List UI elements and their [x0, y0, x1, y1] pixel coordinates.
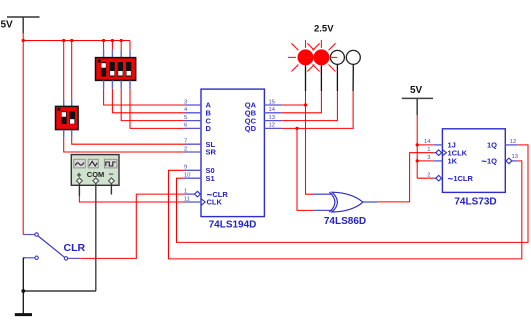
- IC U3 74LS73D body: [442, 129, 505, 193]
- switch S2 DIP4 body: [96, 58, 136, 81]
- inversion diamond ~1CLR U3: [436, 175, 442, 181]
- function generator XFG1 body: [71, 155, 119, 186]
- clock wedge CLK U1: [201, 199, 205, 206]
- svg-text:CLR: CLR: [64, 242, 86, 254]
- wire XOR output to 1CLK: [377, 153, 434, 202]
- wire DIP4 pin3 to C: [121, 89, 184, 121]
- svg-text:5: 5: [184, 115, 187, 121]
- wire DIP2 pin3 to SL: [72, 137, 185, 144]
- svg-text:QD: QD: [245, 124, 257, 133]
- wire 1Q to S1 (feedback): [177, 145, 529, 243]
- svg-text:13: 13: [512, 154, 518, 160]
- junction rail DIP2 pin2: [70, 39, 73, 42]
- pin stubs U3 right: [505, 145, 517, 161]
- svg-text:–: –: [109, 169, 114, 179]
- wire 5V vertical to CLR switch: [23, 33, 25, 235]
- svg-text:SR: SR: [206, 148, 217, 157]
- wire DIP4 top pins: [104, 41, 130, 50]
- wire XFG1 plus to CLK: [79, 196, 184, 202]
- svg-text:1K: 1K: [448, 157, 458, 166]
- lead XFG1 COM: [95, 184, 97, 291]
- pin leads DIP4 top: [104, 50, 130, 58]
- svg-text:2: 2: [184, 146, 187, 152]
- clock wedge 1CLK U3: [442, 150, 446, 156]
- svg-text:S1: S1: [206, 174, 215, 183]
- svg-text:13: 13: [269, 115, 275, 121]
- wire DIP2 top pins: [64, 41, 72, 99]
- power 5V VCC2: [402, 98, 433, 115]
- svg-text:2: 2: [427, 173, 430, 179]
- svg-text:7: 7: [184, 139, 187, 145]
- svg-text:14: 14: [424, 139, 431, 145]
- wire QC to LED3: [281, 91, 337, 121]
- lead XFG1 plus: [78, 184, 80, 197]
- pin numbers U1: [184, 99, 276, 202]
- inversion diamond ~1Q U3: [506, 158, 512, 164]
- wire QB to LED2: [281, 91, 321, 113]
- junction QA node: [304, 103, 307, 106]
- svg-text:3: 3: [184, 99, 187, 105]
- pin numbers U3: [424, 139, 518, 178]
- pin stubs U1 left: [185, 105, 202, 202]
- junction QD node: [295, 127, 298, 130]
- svg-text:10: 10: [184, 173, 190, 179]
- svg-text:2.5V: 2.5V: [314, 24, 334, 35]
- junction rail DIP4 pin3: [120, 39, 123, 42]
- junction rail DIP4 pin2: [111, 39, 114, 42]
- pin leads DIP4 bottom: [104, 80, 130, 88]
- svg-text:3: 3: [427, 155, 430, 161]
- pin leads DIP2 top: [64, 99, 72, 107]
- svg-text:74LS73D: 74LS73D: [454, 197, 496, 208]
- wire QA to LED1 node: [281, 104, 305, 106]
- wire DIP2 pin4 to SR: [64, 137, 185, 152]
- svg-text:12: 12: [510, 139, 516, 145]
- svg-text:5V: 5V: [410, 85, 423, 96]
- svg-text:12: 12: [269, 123, 275, 129]
- LED3 (off, white): [330, 50, 344, 91]
- inversion diamond 1CLK U3: [436, 150, 442, 156]
- pin labels U1: [206, 101, 257, 207]
- wire QD to XOR input2: [297, 128, 314, 210]
- terminal diamonds XFG1: [77, 178, 115, 184]
- LED2 (lit, red): [304, 40, 339, 91]
- switch S1 DIP2 body: [56, 106, 79, 129]
- junction ground net: [21, 289, 25, 293]
- svg-text:74LS86D: 74LS86D: [324, 216, 366, 227]
- svg-text:74LS194D: 74LS194D: [209, 220, 257, 231]
- LED1 (lit, red): [288, 40, 323, 91]
- svg-text:9: 9: [184, 165, 187, 171]
- wire switch lower throw to ground: [23, 258, 96, 314]
- pin leads DIP2 bottom: [64, 130, 72, 138]
- svg-text:15: 15: [269, 99, 275, 105]
- inversion diamond ~CLR U1: [195, 191, 201, 197]
- svg-text:5V: 5V: [1, 20, 14, 31]
- junction 1K: [416, 159, 419, 162]
- junction rail DIP4 pin1: [102, 39, 105, 42]
- XOR gate U2 74LS86D: [314, 192, 377, 212]
- wire ~1Q to S0 (feedback): [169, 161, 522, 259]
- wire CLR net (switch pole to ~CLR): [80, 194, 184, 258]
- LED4 (off, white): [346, 50, 360, 91]
- wire QD to LED4: [281, 91, 353, 128]
- svg-text:1Q: 1Q: [487, 141, 497, 150]
- power 5V VCC1: [7, 17, 40, 33]
- wire LED1/QA to XOR input1: [306, 91, 314, 194]
- pin labels U3: [448, 141, 498, 185]
- ground: [15, 313, 32, 316]
- svg-text:14: 14: [269, 107, 276, 113]
- junction 1J: [416, 143, 419, 146]
- svg-text:1: 1: [184, 188, 187, 194]
- junction rail DIP2 pin1: [62, 39, 65, 42]
- lead XFG1 minus (open stub): [110, 184, 112, 195]
- svg-text:11: 11: [184, 196, 190, 202]
- pin stubs U1 right: [264, 105, 281, 128]
- wire DIP4 pin4 to D: [130, 89, 185, 129]
- pin stubs U3 left: [434, 145, 443, 178]
- svg-text:D: D: [206, 124, 212, 133]
- wire 5V rail: [23, 40, 130, 42]
- wire DIP4 pin2 to B: [112, 89, 184, 113]
- wire DIP4 pin1 to A: [104, 89, 185, 105]
- svg-text:1: 1: [427, 147, 430, 153]
- svg-text:CLK: CLK: [207, 198, 223, 207]
- switch J1 CLR (SPDT): [25, 233, 81, 260]
- IC U1 74LS194D body: [201, 89, 264, 217]
- wire 5V2 to 1J/1K/~1CLR: [417, 115, 434, 178]
- junction rail-left: [22, 39, 25, 42]
- label + COM - (XFG1 terminals): [77, 169, 114, 180]
- svg-text:6: 6: [184, 123, 187, 129]
